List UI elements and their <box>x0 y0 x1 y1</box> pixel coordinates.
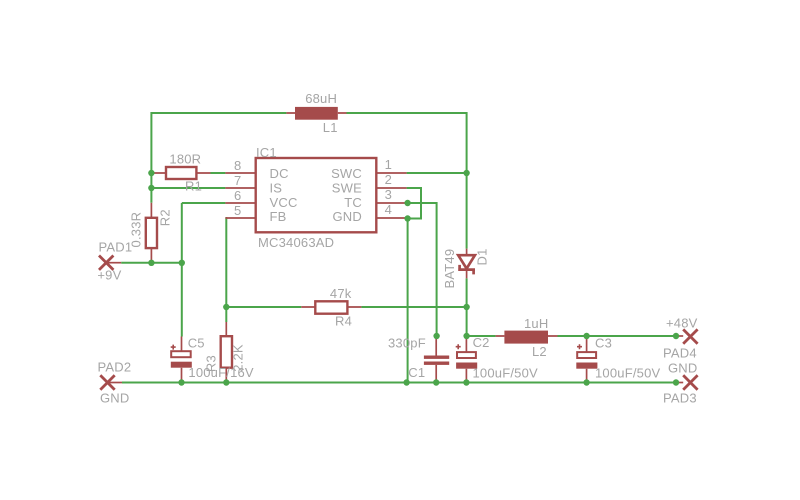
resistor R3 <box>203 322 245 383</box>
svg-text:+9V: +9V <box>97 268 121 283</box>
junction IS row node <box>148 185 154 191</box>
wire top rail right <box>347 112 467 114</box>
svg-text:7: 7 <box>234 173 241 188</box>
svg-text:TC: TC <box>344 195 362 210</box>
wire R1 to pin8 <box>211 172 226 174</box>
svg-text:3: 3 <box>385 187 392 202</box>
svg-text:100uF/50V: 100uF/50V <box>473 366 539 381</box>
svg-text:180R: 180R <box>169 152 201 167</box>
junction C3 top node <box>583 333 589 339</box>
wire VCC vertical drop to +9V node <box>181 203 183 263</box>
junction R1 left node <box>148 170 154 176</box>
svg-text:BAT49: BAT49 <box>442 249 457 289</box>
svg-text:C2: C2 <box>473 335 490 350</box>
wire SWE pin2 loop to pin4 <box>407 188 421 219</box>
IC1 pin 3 TC <box>344 187 406 210</box>
IC1 pin 5 FB <box>225 203 286 224</box>
capacitor C2 <box>456 335 538 383</box>
junction C2 bottom node <box>463 379 469 385</box>
svg-text:R2: R2 <box>158 209 173 226</box>
capacitor C5 <box>171 336 254 383</box>
svg-text:1: 1 <box>385 157 392 172</box>
svg-text:+48V: +48V <box>666 316 698 331</box>
svg-text:100uF/16V: 100uF/16V <box>188 365 254 380</box>
svg-text:GND: GND <box>668 361 698 376</box>
wire FB node down to R3 <box>225 307 227 322</box>
wire C3 to PAD4 <box>587 335 676 337</box>
svg-text:2: 2 <box>385 172 392 187</box>
svg-text:VCC: VCC <box>270 195 298 210</box>
junction C3 bottom node <box>583 379 589 385</box>
svg-text:R4: R4 <box>335 314 352 329</box>
pad PAD4 +48V <box>663 316 698 361</box>
wire IS row pin7 <box>151 187 225 189</box>
wire R4 right to diode node <box>361 306 466 308</box>
capacitor C3 <box>576 336 660 383</box>
svg-text:DC: DC <box>270 166 289 181</box>
svg-text:1uH: 1uH <box>524 316 548 331</box>
svg-text:PAD3: PAD3 <box>663 391 697 406</box>
wire FB pin5 down to R4 node <box>224 218 227 307</box>
svg-text:PAD2: PAD2 <box>98 360 132 375</box>
svg-text:8: 8 <box>234 158 241 173</box>
wire TC pin3 to C1 <box>408 203 437 336</box>
junction +9V R2 node <box>148 260 154 266</box>
inductor L1 <box>286 91 346 135</box>
wire +9V node horizontal <box>121 262 182 264</box>
junction GND pin4 node <box>404 215 410 221</box>
wire bottom ground rail <box>122 382 676 384</box>
wire FB node to R4 left <box>226 306 301 308</box>
svg-text:FB: FB <box>270 209 287 224</box>
pad PAD1 +9V <box>97 240 132 283</box>
IC1 pin 4 GND <box>333 202 407 224</box>
wire SWC pin1 to diode column <box>407 172 467 174</box>
junction PAD3 node <box>673 379 679 385</box>
op-amp IC1 MC34063AD box <box>256 145 377 250</box>
svg-text:C5: C5 <box>188 336 205 351</box>
junction C2 top node <box>463 333 469 339</box>
resistor R1 <box>151 152 210 194</box>
junction diode output node <box>463 304 469 310</box>
wire diode column bottom <box>466 278 468 336</box>
resistor R2 <box>129 203 173 263</box>
junction +9V VCC node <box>179 260 185 266</box>
wire GND pin4 down to rail <box>407 219 409 383</box>
svg-text:PAD1: PAD1 <box>99 240 133 255</box>
wire diode column top <box>466 112 468 249</box>
junction C5 bottom node <box>178 379 184 385</box>
svg-text:L1: L1 <box>323 120 338 135</box>
diode D1 BAT49 <box>442 248 490 288</box>
junction C1 top node <box>433 333 439 339</box>
svg-text:6: 6 <box>234 188 241 203</box>
svg-text:330pF: 330pF <box>388 336 426 351</box>
wire +9V node down to C5 <box>181 263 183 337</box>
junction GND rail pin4 node <box>403 379 409 385</box>
svg-text:C1: C1 <box>408 365 425 380</box>
junction PAD4 node <box>673 333 679 339</box>
svg-text:GND: GND <box>333 209 363 224</box>
wire VCC horizontal pin6 <box>182 202 226 204</box>
svg-text:GND: GND <box>100 391 130 406</box>
resistor R4 <box>301 286 361 329</box>
svg-text:5: 5 <box>234 203 241 218</box>
junction C1 bottom node <box>433 379 439 385</box>
svg-text:L2: L2 <box>532 344 547 359</box>
junction TC pin3 node <box>404 200 410 206</box>
svg-text:IC1: IC1 <box>256 145 277 160</box>
IC1 pin 2 SWE <box>332 172 407 195</box>
IC1 pin 8 DC <box>225 158 288 181</box>
junction SWC diode node <box>463 170 469 176</box>
wire L2 to C3 <box>558 335 587 337</box>
svg-text:SWE: SWE <box>332 180 362 195</box>
svg-text:D1: D1 <box>475 248 490 265</box>
svg-text:SWC: SWC <box>331 166 362 181</box>
svg-text:C3: C3 <box>595 336 612 351</box>
IC1 pin 1 SWC <box>331 157 407 181</box>
junction R3 bottom node <box>223 379 229 385</box>
svg-text:47k: 47k <box>330 286 352 301</box>
svg-text:68uH: 68uH <box>305 91 337 106</box>
svg-text:MC34063AD: MC34063AD <box>258 235 334 250</box>
svg-text:R1: R1 <box>185 179 202 194</box>
svg-text:4: 4 <box>385 202 392 217</box>
IC1 pin 7 IS <box>225 173 282 195</box>
capacitor C1 330pF <box>388 336 449 383</box>
svg-text:100uF/50V: 100uF/50V <box>595 366 661 381</box>
wire output node to L2 <box>467 335 496 337</box>
wire left vertical from top rail to R2 <box>150 112 152 203</box>
pad PAD3 GND <box>663 361 698 406</box>
svg-text:IS: IS <box>270 180 283 195</box>
junction FB R4 R3 node <box>223 304 229 310</box>
inductor L2 <box>496 316 558 359</box>
svg-text:PAD4: PAD4 <box>663 346 697 361</box>
pad PAD2 GND <box>98 360 132 406</box>
IC1 pin 6 VCC <box>225 188 297 210</box>
wire top rail left <box>151 112 286 114</box>
